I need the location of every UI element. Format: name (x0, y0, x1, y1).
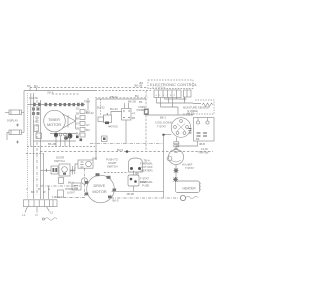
wire bus x37 dashdot (36, 100, 38, 196)
wire selector to hi-limit (176, 141, 198, 150)
svg-text:DISPLAY: DISPLAY (7, 118, 18, 122)
wire L2 lead (47, 207, 50, 212)
svg-text:BK-2B: BK-2B (128, 100, 136, 104)
wire pin3 down (164, 98, 166, 100)
svg-text:SWITCH: SWITCH (107, 165, 118, 169)
heater terminal circle (180, 195, 185, 200)
motor terminal e2 (108, 196, 112, 199)
node blob x146 (144, 109, 149, 116)
moisture sensor RS zigzag (202, 103, 213, 107)
wire stair y103 (157, 102, 202, 105)
relay K1 box (122, 109, 132, 121)
svg-text:BK: BK (27, 84, 31, 88)
wire dashed y146 timer bottom (27, 146, 95, 148)
svg-text:BK: BK (196, 137, 200, 141)
wire S6 down (133, 186, 135, 191)
svg-text:L2: L2 (50, 211, 53, 215)
node dark marks in box (197, 133, 208, 136)
svg-text:G: G (48, 187, 50, 191)
wire left vertical x24 (23, 91, 25, 133)
ground G squiggle (45, 218, 57, 221)
push to start switch S5 (129, 158, 143, 172)
electronic control U1 dashed box (148, 80, 193, 89)
svg-text:13 AF: 13 AF (201, 147, 208, 151)
timer motor M1 (44, 110, 66, 132)
svg-text:BU-32: BU-32 (97, 106, 105, 110)
fuse F1 (59, 178, 64, 184)
svg-text:GA: GA (35, 116, 39, 120)
motor terminal ne (107, 176, 111, 179)
svg-text:+2: +2 (132, 111, 136, 115)
svg-text:456789: 456789 (156, 95, 178, 97)
svg-text:BK: BK (76, 117, 80, 121)
svg-text:BU: BU (86, 110, 90, 114)
node tick b (36, 88, 38, 91)
svg-text:BU: BU (86, 128, 90, 132)
svg-text:2B-2B: 2B-2B (127, 192, 135, 196)
wire L1 horizontal (24, 90, 95, 92)
wire bus x30.8 (30, 93, 32, 147)
wire selector bottom stem (176, 137, 178, 141)
wire BK top dashed bus (30, 87, 148, 89)
node mark1 (16, 124, 19, 127)
svg-text:BU: BU (140, 81, 144, 85)
wire pin5 down (172, 98, 174, 108)
terminal mark A (174, 168, 179, 173)
wire pin4 down (168, 98, 170, 104)
svg-text:L1 CONTROL: L1 CONTROL (152, 87, 167, 89)
timer aux contact K2 (36, 133, 42, 139)
connector J2 small box (184, 90, 192, 97)
wire x88 vertical (87, 98, 89, 110)
node tick a (29, 88, 31, 91)
svg-text:START: START (108, 161, 117, 165)
switch box left of motor (72, 183, 81, 190)
svg-text:BK: BK (139, 100, 143, 104)
svg-text:GY: GY (86, 123, 90, 127)
small box lower (102, 136, 108, 142)
wire dashed mid (52, 93, 80, 95)
svg-text:MOTOR: MOTOR (93, 190, 107, 194)
timer lower contact circles (55, 133, 58, 136)
wire N lead (36, 207, 38, 213)
timer left terminal cluster (32, 108, 40, 116)
motor terminal w2 (85, 193, 88, 196)
thermostat marks (174, 142, 179, 144)
wire J2 down (184, 97, 186, 103)
heater HTR1 (176, 181, 200, 193)
svg-text:FUSE: FUSE (142, 184, 149, 188)
node dark blob1 (54, 133, 58, 138)
wire door switch feed (41, 169, 52, 171)
temperature selector S2 rotary (171, 118, 191, 138)
node junction x184 (183, 97, 186, 100)
timer lower contacts rail (50, 133, 76, 135)
selector switch S3 box (194, 118, 215, 142)
timer aux contact K (34, 125, 39, 132)
wire timer drop2 (60, 136, 62, 147)
timer top rail (28, 104, 85, 106)
wire stair y107 (161, 107, 179, 115)
wire L1 dashed continuation (95, 90, 151, 92)
node junction (46, 169, 48, 172)
wire hi-limit down (175, 165, 177, 181)
svg-text:PB-32: PB-32 (110, 95, 118, 99)
svg-text:DRIVE: DRIVE (94, 184, 106, 188)
terminal mark B (173, 177, 178, 182)
svg-text:BU: BU (76, 132, 80, 136)
node dark blob3 (64, 136, 68, 140)
svg-text:HEATER: HEATER (183, 186, 197, 190)
svg-text:R: R (38, 187, 40, 191)
svg-text:DOOR: DOOR (56, 156, 64, 160)
motor terminal w1 (85, 181, 88, 184)
wire dashdot y143 left (90, 143, 163, 145)
wire pin1 down (156, 98, 158, 104)
wire x96 vertical (95, 99, 97, 160)
svg-text:4B-B: 4B-B (199, 142, 205, 146)
svg-text:BK-4: BK-4 (68, 181, 74, 185)
svg-text:MOTOR: MOTOR (47, 123, 61, 127)
svg-text:BU: BU (34, 84, 38, 88)
svg-text:BK: BK (31, 190, 35, 194)
svg-text:TMP 5W: TMP 5W (198, 151, 209, 155)
centrifugal actuator circle (81, 178, 87, 184)
svg-text:4#37O5: 4#37O5 (108, 124, 118, 128)
svg-text:45-33: 45-33 (187, 112, 194, 116)
node mark2 (16, 141, 19, 144)
svg-text:2B: 2B (76, 112, 79, 116)
wire motor out2 (111, 197, 178, 199)
wire bus x27.5 dotted (27, 93, 29, 199)
wire buzzer to relay (111, 112, 122, 116)
node dark blob2 (68, 133, 73, 138)
motor switch S6 box (128, 175, 139, 186)
wire pin6 down (176, 98, 178, 100)
wire relay top pins (125, 103, 129, 109)
power cord plug P1 (5, 111, 9, 113)
wire timer drop3 (64, 136, 66, 147)
wire timer drop1 (55, 136, 57, 147)
svg-text:TB-A: TB-A (144, 159, 150, 163)
svg-text:3O: 3O (76, 107, 80, 111)
wire dashed right (95, 97, 148, 99)
door switch S1 (51, 166, 58, 174)
svg-text:BK-5: BK-5 (113, 199, 119, 203)
motor terminal e1 (113, 189, 117, 192)
wire bus x33.5 (33, 93, 35, 199)
centrifugal link dashdot (84, 169, 86, 197)
wire motor to S6 dashed (104, 172, 128, 174)
svg-text:HI-LIMIT: HI-LIMIT (182, 163, 193, 167)
timer terminal column (80, 110, 85, 138)
heater squiggle lead (186, 196, 198, 199)
wire motor out1 (112, 190, 164, 192)
wire relay down (125, 120, 127, 144)
wire timer drop4 (69, 136, 71, 147)
svg-text:1-BL: 1-BL (52, 195, 58, 199)
wire hi-limit feed (146, 114, 193, 116)
cabinet dashed boundary (40, 151, 213, 153)
moisture sensor dashed enclosure (183, 100, 214, 114)
wire pin2 down (160, 98, 162, 108)
interior light box (58, 190, 64, 197)
node junction dot (162, 134, 164, 136)
buzzer BZ1 (98, 117, 104, 122)
svg-text:HTR: HTR (140, 180, 146, 184)
svg-text:GY: GY (76, 122, 80, 126)
wire stair y99 (165, 98, 185, 100)
svg-text:BK-1: BK-1 (160, 116, 166, 120)
svg-text:4 MIN: 4 MIN (138, 105, 145, 109)
svg-text:MOISTURE SENSOR: MOISTURE SENSOR (183, 106, 209, 110)
node marks circle-box (189, 129, 192, 133)
svg-text:1-BC: 1-BC (33, 120, 39, 124)
node dot y151 (126, 150, 129, 153)
wire bus x43.5 (43, 154, 45, 199)
svg-text:BK-2B: BK-2B (48, 142, 56, 146)
svg-text:1-M 3D: 1-M 3D (29, 96, 38, 100)
svg-text:LIGHT: LIGHT (67, 191, 75, 195)
timer cam wedge (62, 114, 76, 129)
wire dashdot y186 (41, 185, 81, 187)
wire vert x146 (145, 91, 147, 108)
wire timer mid rail (34, 140, 77, 142)
svg-text:T-STAT: T-STAT (140, 177, 149, 181)
wire x100 dashed vertical (100, 99, 102, 115)
motor terminal top (96, 173, 100, 176)
svg-text:ELECTRONIC CONTROL: ELECTRONIC CONTROL (150, 82, 198, 87)
timer terminals top row (33, 103, 84, 106)
svg-text:(5OME): (5OME) (137, 108, 147, 112)
svg-text:T-STAT: T-STAT (185, 166, 194, 170)
wire x163 long vertical (163, 135, 165, 198)
wire L1 lead (25, 207, 28, 213)
svg-text:PUSH TO: PUSH TO (106, 158, 118, 162)
power cord plug P2 (7, 132, 9, 140)
svg-text:COOL DOWN: COOL DOWN (155, 121, 172, 125)
wire S5 down (133, 171, 135, 176)
door switch right bracket (70, 166, 75, 175)
svg-text:W: W (43, 190, 46, 194)
wire y153 stub (26, 153, 44, 155)
wire belt switch link (70, 164, 78, 170)
svg-text:TB-A: TB-A (84, 100, 90, 104)
wire bus x48.5 (48, 186, 50, 199)
svg-text:L1: L1 (23, 213, 26, 217)
svg-text:4B: 4B (132, 116, 135, 120)
svg-text:N: N (36, 213, 38, 217)
svg-text:BU-5: BU-5 (117, 148, 124, 152)
svg-text:BU-3C: BU-3C (110, 107, 118, 111)
drive motor M2 (87, 175, 115, 203)
svg-text:Y: Y (26, 187, 28, 191)
svg-text:BU: BU (135, 94, 139, 98)
hi-limit thermostat TS1 (168, 149, 183, 164)
svg-text:SWITCH: SWITCH (54, 159, 65, 163)
belt switch S4 (78, 160, 93, 168)
wire interior light dashdot (57, 197, 86, 199)
connector J1 strip (154, 90, 181, 98)
terminal block TB1 (24, 200, 58, 207)
wire top mid rail (96, 98, 146, 100)
svg-text:TIMER: TIMER (48, 118, 60, 122)
wire bus x40.5 (40, 100, 42, 199)
svg-text:1B: 1B (76, 127, 79, 131)
svg-text:T-STAT: T-STAT (157, 125, 166, 129)
node cluster marks (76, 136, 79, 139)
wire selector left drop (164, 134, 172, 136)
